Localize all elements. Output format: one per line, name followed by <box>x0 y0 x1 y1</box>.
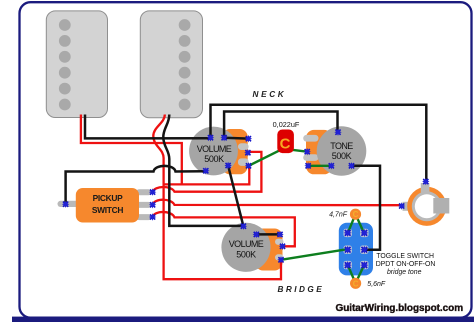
wire green top cap to toggle lugs <box>348 214 365 233</box>
svg-text:500K: 500K <box>236 249 256 259</box>
wire green bottom cap to toggle lugs <box>348 265 365 284</box>
node tone bottom lug <box>304 162 311 169</box>
svg-text:C: C <box>353 210 359 219</box>
wire black jumper volume2 top lug <box>256 233 280 236</box>
pickup switch <box>58 188 152 223</box>
capacitor 4,7nF <box>329 209 361 220</box>
node tone top <box>334 129 341 136</box>
wire red neck pickup hot <box>81 115 182 185</box>
node switch lug3 <box>149 213 156 220</box>
node volume1 middle lug <box>244 149 251 156</box>
wire green jumper tone bottom lug to casing <box>308 165 331 167</box>
svg-text:GuitarWiring.blogspot.com: GuitarWiring.blogspot.com <box>336 303 464 314</box>
svg-text:bridge tone: bridge tone <box>387 269 422 276</box>
capacitor 5,6nF <box>350 278 386 289</box>
svg-text:TONE: TONE <box>330 141 353 151</box>
volume pot neck (VOLUME 500K) <box>189 127 249 176</box>
wire black A volume1 to jack sleeve <box>211 105 427 181</box>
node switch common <box>62 201 69 208</box>
svg-text:TOGGLE SWITCH: TOGGLE SWITCH <box>376 253 434 260</box>
node volume1 bottom lug <box>245 162 252 169</box>
svg-text:B R I D G E: B R I D G E <box>278 285 323 294</box>
capacitor C1 0,022uF <box>273 120 300 153</box>
node toggle lug mid right <box>360 246 368 254</box>
node volume2 middle lug <box>279 243 286 250</box>
tone pot (TONE 500K) <box>303 126 366 176</box>
svg-text:C: C <box>353 279 359 288</box>
wire black bridge pickup to volume2 top <box>163 115 243 226</box>
wire red switch lug3 to volume2 middle lug <box>153 212 295 246</box>
node volume2 top lug left <box>253 231 260 238</box>
svg-text:VOLUME: VOLUME <box>197 144 232 154</box>
node jack tip <box>398 202 405 209</box>
volume pot bridge (VOLUME 500K) <box>221 223 283 272</box>
wire green volume1 bottom lug to cap to tone middle lug <box>249 150 308 166</box>
node tone middle lug <box>304 148 311 155</box>
node volume1 casing left <box>202 167 209 174</box>
pickup neck (humbucker) <box>46 11 107 118</box>
wire black jumper volume1 top lug <box>224 137 248 140</box>
node volume1 casing right <box>224 162 231 169</box>
node toggle lug mid left <box>344 246 352 254</box>
node volume2 top <box>240 223 247 230</box>
node volume1 top lug right <box>245 135 252 142</box>
wire black diagonal volume1 to volume2 <box>228 166 243 227</box>
svg-text:DPDT ON-OFF-ON: DPDT ON-OFF-ON <box>376 261 436 268</box>
wire black B volume1 to tone top <box>224 112 337 138</box>
svg-text:PICKUP: PICKUP <box>93 193 124 203</box>
node switch lug1 <box>149 188 156 195</box>
svg-text:5,6nF: 5,6nF <box>367 281 386 288</box>
node jack sleeve <box>422 178 429 185</box>
toggle switch DPDT <box>339 223 373 276</box>
wire black switch common to volume1 casing <box>66 166 206 204</box>
wire black neck pickup to volume1 <box>85 115 210 139</box>
node toggle lug top left <box>344 229 352 237</box>
svg-text:500K: 500K <box>204 154 224 164</box>
svg-text:SWITCH: SWITCH <box>92 205 123 215</box>
wire red bus to volume1 bottom lug <box>164 166 250 184</box>
node toggle lug bottom left <box>344 261 352 269</box>
wire black tone to toggle switch <box>352 166 381 250</box>
node volume1 top left <box>207 134 214 141</box>
wire green volume2 bottom lug to toggle switch <box>281 249 347 259</box>
wire red switch lug1 to volume1 middle lug <box>153 152 262 192</box>
svg-text:C: C <box>280 135 291 152</box>
wire red bridge pickup hot <box>153 115 281 280</box>
node toggle lug bottom right <box>360 261 368 269</box>
svg-text:500K: 500K <box>332 151 352 161</box>
svg-text:N E C K: N E C K <box>253 90 285 99</box>
node volume1 top lug left <box>220 134 227 141</box>
svg-text:VOLUME: VOLUME <box>229 239 264 249</box>
node dots <box>62 129 430 270</box>
node volume2 bottom lug <box>277 256 284 263</box>
pickup bridge (humbucker) <box>140 11 202 118</box>
svg-text:0,022uF: 0,022uF <box>273 120 300 129</box>
node switch lug2 <box>149 201 156 208</box>
bottom navy band <box>12 317 474 322</box>
node volume2 top lug right <box>276 231 283 238</box>
svg-text:4,7nF: 4,7nF <box>329 212 348 219</box>
node tone casing right <box>348 162 355 169</box>
node tone casing left <box>328 162 335 169</box>
wire red switch lug2 to output jack <box>153 200 402 205</box>
output jack <box>403 183 450 226</box>
node toggle lug top right <box>360 229 368 237</box>
